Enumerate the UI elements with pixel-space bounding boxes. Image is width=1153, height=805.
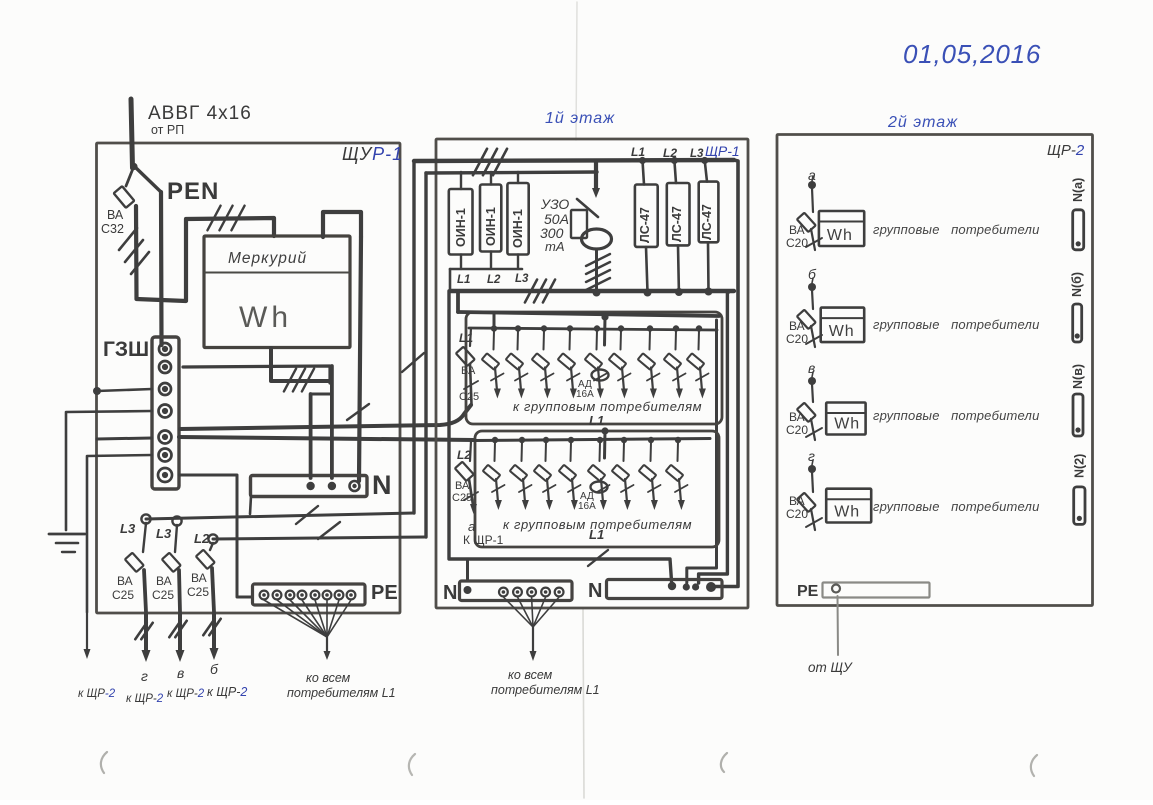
svg-text:б: б <box>210 661 219 677</box>
svg-text:групповые потребители: групповые потребители <box>873 317 1040 332</box>
svg-text:L1: L1 <box>631 145 645 159</box>
hatch marks on distribution wire <box>525 280 537 303</box>
row1 feed riser <box>603 317 607 345</box>
svg-text:L2: L2 <box>194 531 210 546</box>
svg-text:С25: С25 <box>452 492 472 504</box>
svg-text:N(а): N(а) <box>1071 178 1085 202</box>
svg-text:ГЗШ: ГЗШ <box>103 338 149 361</box>
svg-text:к групповым потребителям: к групповым потребителям <box>513 399 702 414</box>
wire ГЗШ terminal5 to row2 of ЩР-1 <box>179 437 474 440</box>
slash on L3a wire <box>296 506 318 524</box>
circuit breaker ЛС-47 no.1 <box>639 157 646 164</box>
RCD УЗО feed stub <box>594 161 598 190</box>
svg-text:ВА: ВА <box>156 574 172 588</box>
node dot row4 <box>812 460 813 465</box>
ГЗШ terminal 7 <box>158 468 172 482</box>
svg-text:Меркурий: Меркурий <box>228 250 307 267</box>
svg-text:ко всем: ко всем <box>508 668 553 682</box>
N bus2 terminal 3 <box>692 583 699 590</box>
РЕ terminal 4 <box>298 591 307 600</box>
ГЗШ terminal 6 <box>159 449 172 462</box>
svg-text:2й этаж: 2й этаж <box>887 114 958 131</box>
svg-text:L3: L3 <box>515 273 529 285</box>
svg-text:С25: С25 <box>152 588 174 602</box>
svg-text:К ЩР-1: К ЩР-1 <box>463 533 504 547</box>
svg-text:С20: С20 <box>786 507 808 521</box>
svg-text:ко всем: ко всем <box>306 671 351 685</box>
svg-text:С20: С20 <box>786 236 808 250</box>
svg-text:С32: С32 <box>101 222 124 236</box>
breaker row1 group 1 <box>491 325 497 331</box>
svg-text:ЩР-2: ЩР-2 <box>1047 142 1085 159</box>
breaker row1 group 7 <box>647 325 653 331</box>
N bus1 terminal 4 <box>541 588 550 597</box>
breaker row2 group 7 <box>648 437 654 443</box>
breaker row1 group 9 <box>696 325 702 331</box>
meter top-right loop wire <box>323 212 361 237</box>
svg-text:а: а <box>468 519 475 534</box>
row2 feed dot <box>601 427 608 434</box>
РЕ terminal 2 <box>273 591 282 600</box>
РЕ terminal 6 <box>323 591 332 600</box>
meter Wh row1 <box>819 211 864 246</box>
RCD УЗО toroid <box>582 229 612 249</box>
gap riser wire 1 <box>412 161 415 513</box>
meter Меркурий box <box>204 236 350 348</box>
svg-text:N: N <box>588 580 602 602</box>
breaker ВА С32 contact <box>126 166 134 186</box>
punch hole arc 2 <box>409 754 415 775</box>
gap riser wire 2 <box>424 173 427 537</box>
svg-text:от РП: от РП <box>151 123 184 137</box>
breaker ВА С25 row1 input <box>470 328 471 346</box>
svg-text:С25: С25 <box>187 585 209 599</box>
hatch marks on meter bottom wire <box>284 369 296 392</box>
svg-text:ВА: ВА <box>107 208 124 222</box>
breaker ВА С20 row4 <box>812 472 813 492</box>
circuit breaker ЛС-47 no.2 <box>671 157 678 164</box>
paper crease line bottom <box>583 608 584 798</box>
svg-text:ОИН-1: ОИН-1 <box>484 207 498 246</box>
ground symbol <box>49 533 85 536</box>
N bar row1 <box>1073 210 1084 250</box>
N bus terminal 3 <box>350 481 360 491</box>
svg-text:ВА: ВА <box>789 223 805 237</box>
hatch marks below УЗО <box>586 254 610 266</box>
svg-text:г: г <box>808 448 815 464</box>
surge arrester ОИН-1 no.3 <box>507 183 528 255</box>
wire ГЗШ terminal4 to ground <box>66 411 152 530</box>
N bus1 feed stub <box>466 559 469 581</box>
svg-text:L3: L3 <box>156 526 172 541</box>
svg-text:L1: L1 <box>589 413 604 428</box>
РЕ down arrow <box>326 637 328 652</box>
wire ГЗШ terminal6 to exit <box>87 455 152 612</box>
svg-text:L1: L1 <box>589 527 604 542</box>
group box row2 <box>475 431 719 547</box>
breaker ВА С25 no.2 symbol <box>175 525 177 552</box>
junction dot УЗО <box>593 289 601 297</box>
exit wire к ЩР-2 thin <box>86 612 88 650</box>
row1 feed jog <box>493 314 496 327</box>
svg-text:С25: С25 <box>112 588 134 602</box>
svg-text:тА: тА <box>545 239 565 254</box>
svg-text:L3: L3 <box>120 521 136 536</box>
РЕ terminal 3 <box>286 591 295 600</box>
svg-text:Wh: Wh <box>834 416 860 433</box>
exit wire г <box>144 614 148 652</box>
punch hole arc 3 <box>721 753 727 772</box>
incoming cable АВВГ 4х16 <box>131 99 133 168</box>
N bar row2 <box>1073 304 1082 342</box>
group box row1 <box>466 312 722 424</box>
svg-text:ВА: ВА <box>789 410 805 424</box>
svg-text:ВА: ВА <box>789 494 805 508</box>
slash on L2 wire <box>318 522 340 539</box>
right side bus down 2 <box>699 291 730 583</box>
breaker ВА С25 no.2 terminal <box>172 516 181 525</box>
meter label band <box>205 272 349 274</box>
row2 feed riser <box>603 431 607 458</box>
N bus2 terminal 2 <box>683 583 690 590</box>
N bus riser wires <box>309 394 313 478</box>
svg-text:в: в <box>177 665 184 681</box>
breaker ВА С25 row2 input <box>470 441 471 461</box>
svg-text:PEN: PEN <box>167 178 219 205</box>
row1 feed dot <box>601 313 608 320</box>
breaker ВА С25 no.1 symbol <box>143 523 146 552</box>
paper crease line top <box>576 2 577 140</box>
breaker row2 group 6 <box>621 437 627 443</box>
svg-text:N: N <box>443 582 457 604</box>
svg-text:ЛС-47: ЛС-47 <box>670 206 684 242</box>
svg-text:к ЩР-2: к ЩР-2 <box>78 688 116 700</box>
panel ЩР-2 enclosure <box>777 135 1093 606</box>
svg-text:L1: L1 <box>457 274 470 286</box>
N bus bar left panel <box>251 476 368 497</box>
meter Wh row4 <box>826 489 871 523</box>
RCD УЗО lower wire <box>595 249 598 291</box>
distribution wire after УЗО <box>450 289 734 293</box>
node dot row3 <box>812 372 813 377</box>
svg-text:16А: 16А <box>578 501 596 512</box>
N bus left stub <box>250 496 251 514</box>
РЕ bus bar right panel <box>823 583 930 598</box>
slash on gap risers <box>402 353 424 372</box>
РЕ terminal 1 <box>260 591 269 600</box>
svg-text:01,05,2016: 01,05,2016 <box>903 39 1041 69</box>
wire ГЗШ terminal3 to left border <box>97 389 152 391</box>
panel ЩР-1 enclosure <box>436 139 748 608</box>
diff breaker АД row2 toroid <box>591 482 608 493</box>
svg-text:ОИН-1: ОИН-1 <box>511 209 525 248</box>
РЕ terminal 7 <box>335 591 344 600</box>
breaker row2 group 4 <box>568 437 574 443</box>
hatch marks on PEN wire <box>207 206 220 231</box>
wire ГЗШ terminal5 left stub <box>97 438 152 439</box>
breaker row1 group 8 <box>673 325 679 331</box>
svg-text:групповые потребители: групповые потребители <box>873 222 1040 237</box>
ГЗШ bus bar <box>152 337 179 489</box>
left inner N wire <box>449 291 672 581</box>
svg-text:ВА: ВА <box>455 480 470 492</box>
row1 bus wire <box>469 328 717 330</box>
ГЗШ terminal 3 <box>159 383 171 395</box>
ГЗШ terminal 2 <box>159 361 171 373</box>
hatch marks on top bus <box>473 149 487 175</box>
svg-text:ВА: ВА <box>789 319 805 333</box>
slash on N wire <box>588 550 608 566</box>
surge arrester ОИН-1 no.2 <box>480 185 501 252</box>
svg-text:С20: С20 <box>786 332 808 346</box>
РЕ exit wire <box>837 596 840 655</box>
breaker row2 group 3 <box>543 437 549 443</box>
N bus2 terminal 1 <box>668 582 676 590</box>
svg-text:N(б): N(б) <box>1070 272 1084 297</box>
svg-text:РЕ: РЕ <box>797 583 819 600</box>
РЕ fan wires <box>264 600 327 637</box>
breaker row2 group 1 <box>492 437 498 443</box>
РЕ terminal dot <box>832 585 840 593</box>
panel ЩУР-1 enclosure <box>97 143 401 613</box>
N bus1 down arrow <box>532 627 534 652</box>
breaker ВА С20 row1 <box>812 188 813 212</box>
breaker ВА С25 no.1 terminal <box>141 514 150 523</box>
node dot row2 <box>812 278 813 283</box>
ГЗШ terminal 4 <box>159 405 172 418</box>
ГЗШ terminal 1 <box>159 343 171 355</box>
wire ГЗШ terminal7 to РЕ bus <box>179 475 252 597</box>
N bus bar 1 <box>460 581 573 601</box>
РЕ terminal 5 <box>311 591 320 600</box>
svg-text:N: N <box>372 470 392 500</box>
junction dot on border <box>93 387 101 395</box>
breaker ВА С25 no.3 terminal <box>208 534 217 543</box>
wire junction to ГЗШ terminal 2 <box>183 366 330 383</box>
breaker row1 group 4 <box>567 325 573 331</box>
breaker row1 group 6 <box>618 325 624 331</box>
diff breaker АД row1 toroid <box>592 370 609 381</box>
svg-text:к ЩР-2: к ЩР-2 <box>167 688 205 700</box>
svg-text:потребителям L1: потребителям L1 <box>491 683 600 697</box>
N bus1 input dot <box>464 586 472 594</box>
breaker QF ВА С32 blade <box>130 163 137 170</box>
svg-text:С25: С25 <box>459 391 479 403</box>
svg-text:групповые потребители: групповые потребители <box>873 408 1040 423</box>
svg-text:1й этаж: 1й этаж <box>545 110 615 127</box>
svg-text:Wh: Wh <box>239 301 292 334</box>
N bus2 terminal 4 <box>706 582 716 592</box>
breaker row2 group 2 <box>519 437 525 443</box>
phase wire L3a horizontal <box>146 513 414 519</box>
svg-text:Wh: Wh <box>827 227 853 244</box>
N bus1 terminal 2 <box>513 588 522 597</box>
svg-text:от ЩУ: от ЩУ <box>808 660 853 675</box>
svg-text:групповые потребители: групповые потребители <box>873 499 1040 514</box>
svg-text:ЩУР-1: ЩУР-1 <box>342 144 403 164</box>
svg-text:ВА: ВА <box>117 574 133 588</box>
wire breaker to ГЗШ <box>159 192 164 345</box>
svg-text:РЕ: РЕ <box>371 582 398 604</box>
N bus1 terminal 5 <box>555 588 564 597</box>
surge arrester ОИН-1 no.1 <box>449 189 473 255</box>
svg-text:ОИН-1: ОИН-1 <box>454 208 468 247</box>
wire PEN loop <box>136 206 274 301</box>
svg-text:ЩР-1: ЩР-1 <box>705 143 740 159</box>
N bus terminal 1 <box>306 482 314 490</box>
svg-text:ВА: ВА <box>461 365 476 377</box>
wire meter bottom to junction <box>271 348 330 381</box>
N bar row4 <box>1074 487 1085 525</box>
punch hole arc 4 <box>1031 755 1037 776</box>
node dot row1 <box>812 176 813 181</box>
svg-text:Wh: Wh <box>834 504 860 521</box>
N bus1 terminal 3 <box>527 588 536 597</box>
svg-text:N(2): N(2) <box>1072 454 1086 478</box>
svg-text:С20: С20 <box>786 423 808 437</box>
breaker ВА С20 row3 <box>812 384 813 402</box>
row2 bus wire <box>474 439 710 441</box>
svg-text:ЛС-47: ЛС-47 <box>700 204 714 240</box>
breaker row1 group 2 <box>515 325 521 331</box>
N bus1 fan wires <box>503 597 533 627</box>
svg-text:к ЩР-2: к ЩР-2 <box>126 693 164 705</box>
punch hole arc 1 <box>101 752 107 773</box>
phase wire L2 horizontal <box>213 537 426 539</box>
top bus wire 2 <box>426 172 597 173</box>
svg-text:ЛС-47: ЛС-47 <box>638 207 652 243</box>
N bus terminal 2 <box>328 482 336 490</box>
slash on meter-N wire <box>347 404 369 420</box>
wire meter to N bus <box>359 237 361 481</box>
row1 feed wire top edge <box>456 291 460 312</box>
exit wire в <box>178 614 182 652</box>
svg-text:ВА: ВА <box>191 571 207 585</box>
ОИН common wire <box>450 268 522 271</box>
svg-text:N(в): N(в) <box>1071 364 1085 389</box>
hatch marks on ВА С32 wire <box>119 228 137 250</box>
svg-text:L2: L2 <box>487 274 501 286</box>
РЕ terminal 8 <box>347 591 356 600</box>
svg-text:АВВГ 4х16: АВВГ 4х16 <box>148 103 252 124</box>
РЕ bus bar left panel <box>253 584 366 605</box>
RCD УЗО test rect <box>571 210 587 238</box>
svg-text:УЗО: УЗО <box>540 196 569 212</box>
svg-text:потребителям L1: потребителям L1 <box>287 686 396 700</box>
circuit breaker ЛС-47 no.3 <box>701 157 708 164</box>
N bus bar 2 <box>607 580 723 599</box>
breaker row2 group 8 <box>675 437 681 443</box>
meter Wh row2 <box>821 308 865 343</box>
right side bus down 1 <box>715 160 738 587</box>
breaker ВА С25 no.3 symbol <box>210 543 213 550</box>
svg-text:Wh: Wh <box>829 323 855 340</box>
RCD УЗО blade <box>577 199 598 217</box>
exit wire б <box>212 614 216 650</box>
ГЗШ terminal 5 <box>159 431 172 444</box>
breaker row2 group 5 <box>597 437 603 443</box>
N bus1 terminal 1 <box>499 588 508 597</box>
breaker ВА С20 row2 <box>812 290 813 309</box>
N bar row3 <box>1073 394 1083 436</box>
N riser wire inner <box>687 320 717 583</box>
breaker row1 group 5 <box>594 325 600 331</box>
top bus wire 1 <box>414 160 734 161</box>
meter Wh row3 <box>826 403 865 435</box>
wire to row1 of ЩР-1 <box>180 405 471 429</box>
svg-text:к ЩР-2: к ЩР-2 <box>207 685 247 699</box>
svg-text:г: г <box>141 668 148 684</box>
svg-text:в: в <box>808 360 815 376</box>
breaker row1 group 3 <box>541 325 547 331</box>
